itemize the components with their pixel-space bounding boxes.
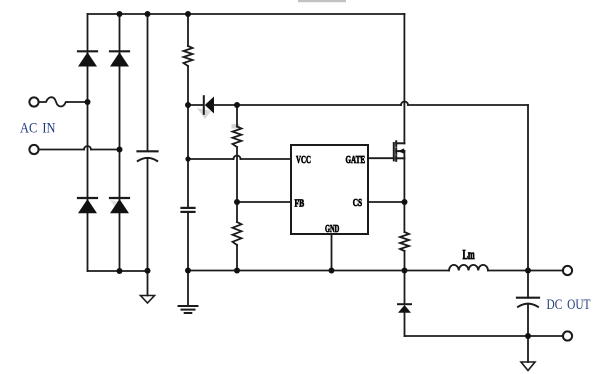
- node output plus: [525, 268, 531, 274]
- capacitor C2 VCC: [182, 208, 195, 212]
- wire MOSFET source down: [403, 151, 405, 232]
- wire VCC feed mid (hop over x=404.5): [214, 104, 401, 106]
- terminal DC OUT minus: [563, 331, 572, 340]
- wire second bridge leg (x=119.5): [119, 14, 121, 271]
- transistor Q1 MOSFET: [394, 141, 405, 161]
- node switch node: [402, 268, 408, 274]
- wire VCC column (x=188): [187, 14, 189, 46]
- op-amp U1 controller IC box: [291, 145, 368, 234]
- capacitor C3 output (polarized): [517, 297, 539, 299]
- svg-text:GATE: GATE: [346, 154, 366, 166]
- node top rail / startup R: [185, 11, 191, 17]
- wire GATE to MOSFET: [368, 157, 394, 159]
- wire CS to IC (y=202): [368, 201, 405, 203]
- terminal AC live: [29, 97, 38, 106]
- wire left bridge leg (x=87.5): [87, 14, 89, 271]
- ground (open triangle) output: [521, 362, 535, 371]
- node VCC diode: [185, 102, 191, 108]
- resistor R4 current sense: [400, 232, 409, 251]
- capacitor C1 bulk (polarized): [138, 150, 158, 152]
- wire FB divider column (x=237): [236, 105, 238, 127]
- diode D4 bridge bottom-right: [110, 197, 129, 199]
- diode D5 VCC feed (points left): [203, 96, 205, 114]
- wire switch node to freewheel diode: [404, 271, 406, 305]
- node top rail / bridge leg2: [117, 11, 123, 17]
- node bridge bottom cap: [145, 268, 151, 274]
- svg-text:GND: GND: [325, 223, 339, 235]
- node VCC wire tee: [185, 156, 190, 161]
- ground (hatched) VCC: [179, 306, 198, 313]
- resistor R2 FB upper: [233, 127, 242, 148]
- wire main bottom rail: [188, 270, 405, 272]
- node rail / FB divider: [234, 268, 240, 274]
- node FB tap: [234, 199, 240, 205]
- node CS tap: [402, 199, 408, 205]
- wire top rail: [88, 13, 405, 15]
- scan artifact smudges: [197, 108, 211, 119]
- node FB top: [234, 102, 240, 108]
- wire FB to IC (y=202): [237, 201, 291, 203]
- wire fuse to bridge: [68, 101, 88, 103]
- fuse F1: [39, 97, 68, 106]
- diode D1 bridge top-left: [78, 50, 97, 52]
- svg-text:DC OUT: DC OUT: [547, 297, 591, 313]
- resistor R1 startup (x=188): [184, 46, 193, 66]
- resistor R3 FB lower: [233, 222, 242, 245]
- node top rail / bulk cap: [145, 11, 151, 17]
- wire VCC to IC (y=159, hop over x=237): [188, 158, 234, 160]
- svg-text:Lm: Lm: [463, 247, 476, 262]
- diode D2 bridge top-right: [110, 50, 129, 52]
- terminal AC neutral: [29, 145, 38, 154]
- node rail / IC GND: [329, 268, 335, 274]
- node bridge bottom leg2: [117, 268, 123, 274]
- svg-text:CS: CS: [353, 197, 362, 209]
- wire bulk cap leg (x=147.5): [147, 14, 149, 151]
- node output minus: [525, 333, 531, 339]
- ground (open triangle) bridge: [141, 296, 155, 304]
- wire MOSFET drain up (x=404.4): [403, 14, 405, 143]
- wire AC neutral to bridge (hop over x=87.5): [39, 149, 85, 151]
- wire bridge bottom: [88, 270, 148, 272]
- svg-text:VCC: VCC: [296, 154, 311, 166]
- diode D3 bridge bottom-left: [78, 197, 97, 199]
- terminal DC OUT plus: [563, 266, 572, 275]
- wire VCC feed (y=105) left part: [188, 104, 204, 106]
- node rail / VCC column: [185, 268, 191, 274]
- wire output top feed down (x=528): [527, 105, 529, 298]
- node neutral-bridge: [117, 147, 123, 153]
- wire GND pin: [331, 234, 333, 271]
- diode D6 freewheel: [398, 303, 411, 305]
- inductor Lm: [405, 270, 450, 272]
- svg-text:AC IN: AC IN: [20, 121, 56, 137]
- node fuse-bridge: [85, 99, 91, 105]
- svg-text:FB: FB: [295, 198, 305, 210]
- wire output bottom rail: [405, 335, 564, 337]
